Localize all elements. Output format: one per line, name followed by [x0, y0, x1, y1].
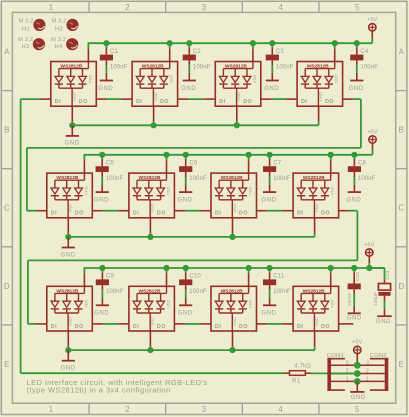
svg-text:GND: GND	[349, 86, 364, 92]
svg-text:C7: C7	[273, 160, 282, 166]
svg-text:GND: GND	[351, 395, 366, 401]
wire rail 3 to C13	[369, 268, 384, 284]
svg-text:GND: GND	[94, 197, 109, 203]
junction VDD LED6	[163, 152, 169, 158]
svg-text:GND: GND	[261, 311, 276, 317]
junction GND LED3	[234, 122, 240, 128]
wire LED10 DO to LED11 DI	[174, 323, 211, 325]
capacitor C9 100nF	[96, 268, 124, 305]
capacitor C12 100nF	[347, 268, 361, 313]
+5V supply symbol P2	[367, 129, 378, 143]
junction CON pin 1 (GND)	[354, 378, 361, 385]
svg-text:100nF: 100nF	[106, 176, 124, 182]
svg-text:100µF: 100µF	[373, 292, 379, 306]
wire GND pin LED2	[153, 106, 155, 125]
svg-text:C3: C3	[276, 49, 285, 55]
junction GND LED7	[229, 234, 235, 240]
svg-text:3: 3	[346, 361, 349, 367]
ground symbol for C3	[264, 81, 279, 92]
svg-text:C: C	[398, 204, 404, 213]
WS2812B RGB LED module LED12	[293, 286, 339, 331]
WS2812B RGB LED module LED2	[132, 62, 178, 107]
svg-text:GND: GND	[318, 92, 323, 101]
wire +5V rail row 3	[84, 267, 385, 269]
wire VDD pin LED4	[334, 43, 336, 61]
svg-text:H2: H2	[55, 27, 63, 33]
svg-text:H1: H1	[22, 27, 30, 33]
svg-text:GND: GND	[61, 252, 76, 258]
wire GND bus row 3	[68, 349, 314, 351]
wire LED1 DO to LED2 DI	[96, 98, 132, 100]
svg-text:GND: GND	[98, 86, 113, 92]
ground symbol for C9	[94, 305, 109, 316]
svg-text:2: 2	[125, 405, 130, 414]
junction GND LED1	[69, 122, 75, 128]
svg-text:1: 1	[49, 405, 54, 414]
junction CON pin 2 (data)	[354, 370, 361, 377]
wire GND pin LED11	[232, 331, 234, 350]
svg-text:VDD: VDD	[330, 299, 335, 308]
frame column numbers top	[49, 3, 360, 12]
description text	[27, 378, 208, 394]
wire GND bus row 2	[68, 236, 314, 238]
frame row ticks right	[396, 91, 407, 325]
mounting hole H4	[51, 37, 78, 51]
+5V supply symbol P3	[364, 242, 375, 256]
svg-text:E: E	[399, 360, 404, 369]
wire GND pin LED9	[67, 331, 69, 350]
wire +5V rail row 2 left drop to LED5 VDD	[83, 154, 85, 173]
junction GND LED5	[65, 234, 71, 240]
svg-text:VDD: VDD	[83, 299, 88, 308]
ground symbol for C6	[178, 192, 193, 203]
svg-text:DO: DO	[239, 324, 248, 330]
wire LED11 DO to LED12 DI	[257, 323, 294, 325]
wire +5V P2 to rail 2	[372, 143, 374, 155]
ground symbol for C7	[261, 192, 276, 203]
svg-text:C9: C9	[106, 274, 115, 280]
wire +5V rail row 1 left drop to LED1 VDD	[87, 42, 89, 61]
WS2812B RGB LED module LED3	[215, 62, 260, 107]
mounting hole H1	[19, 18, 46, 32]
svg-text:M 3,2: M 3,2	[52, 18, 67, 24]
svg-text:100nF: 100nF	[273, 176, 291, 182]
svg-text:DO: DO	[160, 99, 169, 105]
wire +5V rail row 1	[88, 42, 372, 44]
svg-text:R1: R1	[292, 378, 301, 384]
wire GND pin LED8	[314, 218, 316, 237]
svg-text:100nF: 100nF	[106, 289, 124, 295]
svg-text:VDD: VDD	[87, 75, 92, 84]
junction GND LED2	[151, 122, 157, 128]
frame row ticks left	[1, 91, 12, 325]
svg-text:GND: GND	[68, 317, 73, 326]
svg-text:DI: DI	[133, 211, 139, 217]
svg-text:2: 2	[125, 3, 130, 12]
svg-text:100nF: 100nF	[276, 64, 294, 70]
svg-text:GND: GND	[314, 204, 319, 213]
svg-text:100nF: 100nF	[358, 176, 376, 182]
ground symbol for C1	[98, 81, 113, 92]
svg-text:GND: GND	[178, 197, 193, 203]
svg-text:DI: DI	[215, 211, 221, 217]
ground symbol row 1 GND	[65, 125, 80, 146]
wire R1 to data riser	[21, 372, 284, 374]
svg-text:DI: DI	[301, 99, 307, 105]
junction C2 on +5V rail	[186, 40, 192, 46]
ground symbol for C11	[261, 305, 276, 316]
wire GND pin LED12	[314, 331, 316, 350]
svg-text:C8: C8	[358, 160, 367, 166]
junction C8 on +5V rail	[351, 152, 357, 158]
wire LED3 DO to LED4 DI	[261, 98, 297, 100]
svg-text:VDD: VDD	[252, 75, 257, 84]
WS2812B RGB LED module LED1	[51, 62, 97, 107]
svg-text:100nF: 100nF	[273, 289, 291, 295]
svg-text:DI: DI	[219, 99, 225, 105]
connector CON1	[327, 353, 357, 391]
svg-text:GND: GND	[236, 92, 241, 101]
wire VDD pin LED12	[330, 268, 332, 286]
wire R1 to CON1/CON2 pin 2	[311, 372, 357, 374]
wire +5V P4 to CON pin 3	[356, 353, 358, 365]
+5V supply symbol P1	[367, 17, 378, 31]
frame column numbers bottom	[49, 405, 360, 414]
wire +5V P3 to rail 3	[368, 256, 370, 268]
junction C10 on +5V rail	[183, 265, 189, 271]
svg-text:VDD: VDD	[248, 186, 253, 195]
polarized capacitor C13 100uF	[373, 270, 391, 316]
svg-text:1: 1	[346, 377, 349, 383]
mounting hole H2	[52, 18, 79, 32]
ground symbol for C12	[347, 313, 362, 321]
svg-text:4: 4	[278, 405, 283, 414]
frame column ticks top	[89, 1, 319, 12]
wire CON pin 1 to ground	[356, 381, 358, 392]
svg-text:D: D	[4, 282, 10, 291]
svg-text:GND: GND	[178, 311, 193, 317]
junction VDD LED11	[246, 265, 252, 271]
svg-text:A: A	[399, 48, 405, 57]
svg-text:GND: GND	[346, 197, 361, 203]
junction VDD LED7	[246, 152, 252, 158]
svg-text:DO: DO	[239, 211, 248, 217]
svg-text:GND: GND	[181, 86, 196, 92]
junction C3 on +5V rail	[269, 40, 275, 46]
svg-text:5: 5	[355, 405, 360, 414]
svg-text:DO: DO	[321, 211, 330, 217]
mounting hole H3	[18, 37, 45, 51]
junction GND LED10	[147, 347, 153, 353]
junction VDD LED10	[163, 265, 169, 271]
svg-text:DO: DO	[243, 99, 252, 105]
svg-text:C12: C12	[355, 272, 361, 281]
svg-text:C: C	[4, 204, 10, 213]
svg-text:DO: DO	[75, 324, 84, 330]
capacitor C3 100nF	[266, 43, 294, 80]
wire VDD pin LED3	[252, 43, 254, 61]
svg-text:A: A	[4, 48, 10, 57]
wire LED9 DO to LED10 DI	[92, 323, 129, 325]
wire LED4 DO return to LED5 DI	[27, 99, 361, 211]
svg-text:DO: DO	[79, 99, 88, 105]
svg-text:+5V: +5V	[367, 129, 378, 135]
capacitor C5 100nF	[96, 155, 124, 192]
wire LED5 DO to LED6 DI	[92, 210, 129, 212]
connector CON2	[357, 353, 388, 391]
svg-text:1: 1	[49, 3, 54, 12]
junction C5 on +5V rail	[99, 152, 105, 158]
svg-text:3: 3	[366, 361, 369, 367]
wire VDD pin LED7	[248, 155, 250, 173]
svg-text:C6: C6	[189, 160, 198, 166]
wire LED6 DO to LED7 DI	[174, 210, 211, 212]
junction C4 on +5V rail	[354, 40, 360, 46]
frame column ticks bottom	[89, 403, 319, 414]
svg-text:C2: C2	[193, 49, 202, 55]
wire LED7 DO to LED8 DI	[257, 210, 294, 212]
junction GND LED9	[65, 347, 71, 353]
junction CON pin 3 (+5V)	[354, 362, 361, 369]
svg-text:100nF: 100nF	[189, 176, 207, 182]
junction C7 on +5V rail	[267, 152, 273, 158]
svg-text:DI: DI	[51, 211, 57, 217]
svg-text:+5V: +5V	[352, 340, 363, 346]
svg-text:H3: H3	[21, 44, 29, 50]
junction VDD LED3	[250, 40, 256, 46]
svg-text:VDD: VDD	[330, 186, 335, 195]
frame row letters left	[4, 48, 10, 369]
svg-text:DI: DI	[133, 324, 139, 330]
svg-text:GND: GND	[68, 204, 73, 213]
svg-text:M 3,2: M 3,2	[19, 18, 34, 24]
svg-text:M 3,2: M 3,2	[18, 37, 33, 43]
svg-text:4: 4	[278, 3, 283, 12]
svg-text:C5: C5	[106, 160, 115, 166]
svg-text:100nF: 100nF	[189, 289, 207, 295]
capacitor C6 100nF	[179, 155, 207, 192]
svg-text:+5V: +5V	[367, 17, 378, 23]
svg-text:GND: GND	[153, 92, 158, 101]
wire LED2 DO to LED3 DI	[178, 98, 216, 100]
svg-text:C11: C11	[273, 274, 285, 280]
ground symbol at connectors	[350, 392, 366, 401]
WS2812B RGB LED module LED5	[47, 173, 93, 218]
svg-text:C4: C4	[360, 49, 369, 55]
ground symbol row 3 GND	[61, 350, 76, 371]
svg-text:DI: DI	[215, 324, 221, 330]
svg-text:VDD: VDD	[169, 75, 174, 84]
svg-text:100nF: 100nF	[347, 293, 353, 307]
frame row letters right	[398, 48, 404, 369]
ground symbol for C5	[94, 192, 109, 203]
svg-text:DO: DO	[75, 211, 84, 217]
wire +5V rail row 3 left drop to LED9 VDD	[83, 267, 85, 286]
wire LED8 DO return to LED9 DI	[28, 211, 358, 324]
wire GND bus row 1	[72, 124, 318, 126]
WS2812B RGB LED module LED7	[211, 173, 257, 218]
svg-text:B: B	[4, 126, 9, 135]
junction VDD LED4	[332, 40, 338, 46]
wire R1 signal over CON1 pin 2	[332, 373, 358, 375]
svg-text:GND: GND	[314, 317, 319, 326]
junction GND LED11	[229, 347, 235, 353]
svg-text:DI: DI	[297, 211, 303, 217]
ground symbol for C4	[349, 81, 364, 92]
junction C6 on +5V rail	[183, 152, 189, 158]
svg-text:2: 2	[366, 369, 369, 375]
junction VDD LED12	[328, 265, 334, 271]
svg-text:DI: DI	[136, 99, 142, 105]
svg-text:GND: GND	[150, 317, 155, 326]
svg-text:GND: GND	[232, 317, 237, 326]
svg-text:GND: GND	[264, 86, 279, 92]
wire GND pin LED7	[232, 218, 234, 237]
svg-text:GND: GND	[376, 319, 391, 325]
junction +5V P3 on rail 3	[366, 265, 372, 271]
svg-text:VDD: VDD	[166, 186, 171, 195]
wire VDD pin LED2	[169, 43, 171, 61]
svg-text:DI: DI	[297, 324, 303, 330]
svg-text:GND: GND	[150, 204, 155, 213]
wire VDD pin LED10	[166, 268, 168, 286]
junction GND LED6	[147, 234, 153, 240]
svg-text:VDD: VDD	[248, 299, 253, 308]
svg-text:3: 3	[202, 405, 207, 414]
wire GND pin LED5	[67, 218, 69, 237]
svg-text:GND: GND	[232, 204, 237, 213]
WS2812B RGB LED module LED8	[293, 173, 339, 218]
svg-text:DI: DI	[55, 99, 61, 105]
capacitor C11 100nF	[263, 268, 291, 305]
wire GND pin LED3	[236, 106, 238, 125]
svg-text:DO: DO	[157, 324, 166, 330]
resistor R1 4.7k	[284, 363, 311, 384]
wire GND pin LED1	[71, 106, 73, 125]
svg-text:5: 5	[355, 3, 360, 12]
wire VDD pin LED8	[330, 155, 332, 173]
ground symbol row 2 GND	[61, 237, 76, 258]
wire data input riser (R1 to LED1 DI)	[21, 99, 51, 373]
svg-text:100nF: 100nF	[193, 64, 211, 70]
capacitor C1 100nF	[100, 43, 128, 80]
svg-text:M 3,2: M 3,2	[51, 37, 66, 43]
svg-text:GND: GND	[72, 92, 77, 101]
WS2812B RGB LED module LED11	[211, 286, 257, 331]
svg-text:VDD: VDD	[83, 186, 88, 195]
wire GND pin LED4	[318, 106, 320, 125]
ground symbol for C8	[346, 192, 361, 203]
junction VDD LED8	[328, 152, 334, 158]
svg-text:GND: GND	[61, 366, 76, 372]
ground symbol for C2	[181, 81, 196, 92]
svg-text:DO: DO	[157, 211, 166, 217]
svg-text:1: 1	[366, 377, 369, 383]
svg-text:DO: DO	[325, 99, 334, 105]
svg-text:H4: H4	[54, 44, 62, 50]
svg-text:GND: GND	[261, 197, 276, 203]
svg-text:D: D	[398, 282, 404, 291]
junction C1 on +5V rail	[103, 40, 109, 46]
svg-text:4,7kΩ: 4,7kΩ	[294, 363, 311, 369]
svg-text:VDD: VDD	[166, 299, 171, 308]
svg-text:DO: DO	[321, 324, 330, 330]
WS2812B RGB LED module LED4	[297, 62, 343, 107]
svg-text:GND: GND	[347, 315, 362, 321]
ground symbol for C10	[178, 305, 193, 316]
+5V supply symbol P4	[352, 340, 363, 354]
junction VDD LED2	[167, 40, 173, 46]
capacitor C7 100nF	[263, 155, 291, 192]
svg-text:GND: GND	[65, 141, 80, 147]
svg-text:C13: C13	[385, 270, 391, 279]
wire +5V P1 to rail 1	[371, 31, 373, 44]
ground symbol for C13	[376, 316, 392, 325]
wire GND pin LED10	[149, 331, 151, 350]
junction C9 on +5V rail	[99, 265, 105, 271]
WS2812B RGB LED module LED9	[47, 286, 93, 331]
capacitor C10 100nF	[179, 268, 207, 305]
capacitor C4 100nF	[350, 43, 378, 80]
svg-text:100nF: 100nF	[110, 64, 128, 70]
capacitor C2 100nF	[183, 43, 211, 80]
wire VDD pin LED11	[248, 268, 250, 286]
capacitor C8 100nF	[348, 155, 376, 192]
svg-text:GND: GND	[94, 311, 109, 317]
wire LED12 DO (unconnected stub)	[339, 323, 354, 325]
svg-text:C10: C10	[189, 274, 201, 280]
svg-text:B: B	[399, 126, 404, 135]
WS2812B RGB LED module LED6	[129, 173, 175, 218]
svg-text:(type WS2812b) in a 3x4 config: (type WS2812b) in a 3x4 configuration	[27, 385, 171, 394]
svg-text:VDD: VDD	[334, 75, 339, 84]
junction C11 on +5V rail	[267, 265, 273, 271]
wire GND pin LED6	[149, 218, 151, 237]
WS2812B RGB LED module LED10	[129, 286, 175, 331]
svg-text:3: 3	[202, 3, 207, 12]
wire VDD pin LED6	[166, 155, 168, 173]
svg-text:C1: C1	[110, 49, 119, 55]
wire +5V rail row 2	[84, 154, 372, 156]
svg-text:DI: DI	[51, 324, 57, 330]
svg-text:+5V: +5V	[364, 242, 375, 248]
svg-text:E: E	[4, 360, 9, 369]
svg-text:100nF: 100nF	[360, 64, 378, 70]
